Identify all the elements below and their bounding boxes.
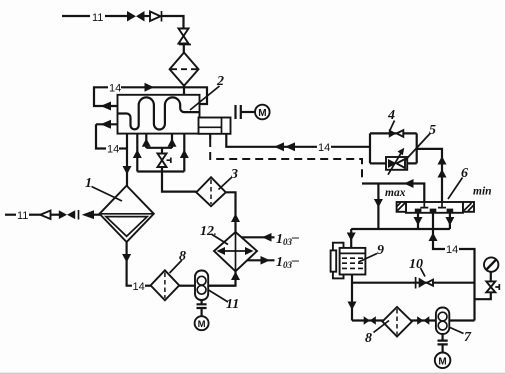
wire: valve to gauge: [490, 272, 492, 282]
svg-text:M: M: [198, 319, 206, 330]
wire: manifold vertical a: [136, 134, 138, 172]
wire: max pilot line: [362, 184, 424, 203]
filter F3 (diamond): [196, 177, 226, 206]
svg-text:max: max: [385, 187, 406, 199]
pump P7 (capsule): [436, 308, 449, 335]
svg-text:3: 3: [230, 167, 238, 182]
wire: port verticals with arrows down: [418, 213, 450, 229]
double arrow inside HX12: [221, 250, 250, 252]
motor M2 (pump 11 drive): [195, 316, 209, 330]
flow arrow up (middle port): [429, 233, 438, 242]
compressor unit U2 body: [118, 95, 200, 134]
wire: loop bottom to regulator 5: [370, 162, 386, 164]
wire: 14 line continues to loop: [331, 133, 370, 163]
drain valve (vertical bowtie under manifold): [161, 148, 163, 154]
double flow arrows up (to valve 6): [438, 156, 447, 165]
filter F8b (diamond): [382, 307, 412, 337]
wire: [94, 214, 100, 216]
leader line for label 7: [450, 328, 464, 334]
coil element inside unit 2: [118, 97, 200, 129]
flow arrow right (coolant out): [261, 256, 271, 265]
tank T9 outer shell: [333, 243, 344, 279]
wire: middle port down to 14: [433, 213, 445, 249]
wire: collector to tank 9: [350, 229, 352, 248]
flow arrow down (below filter 1): [122, 254, 131, 263]
wire: manifold vertical c: [171, 134, 173, 148]
wire: filter 8 to pump 11: [179, 285, 195, 287]
filter F8a (diamond): [151, 270, 180, 300]
svg-text:min: min: [473, 186, 492, 198]
tank T9 body: [340, 248, 366, 275]
flow arrow right (on 14 top line): [145, 83, 155, 92]
leader line for label 3: [219, 178, 232, 190]
flow arrow up (manifold c): [168, 138, 177, 147]
wire: coolant inlet line (upper right of HX12): [242, 236, 275, 238]
coupling under pump 7: [438, 334, 448, 352]
heat exchanger HX12 (diamond): [214, 232, 257, 271]
wire: HX12 bottom to pump line: [208, 271, 236, 285]
leader line for label 4: [390, 121, 395, 131]
wire: 14 stub to main down line: [119, 147, 127, 149]
adjustment arrow through R5: [388, 152, 402, 175]
wire: filter to unit 2 top: [183, 86, 185, 95]
wire: collector line: [351, 228, 450, 230]
flow arrow left (max line): [404, 179, 414, 188]
svg-text:5: 5: [429, 123, 436, 138]
svg-text:2: 2: [216, 74, 224, 89]
leader line for label 12: [212, 235, 228, 245]
wire: main line unit2 to filter 1: [126, 134, 128, 186]
svg-text:11: 11: [17, 210, 28, 222]
wire: intake line 11 left: [5, 214, 16, 216]
wire: outer manifold header: [137, 170, 184, 172]
flow arrow up (into filter 3 line): [231, 214, 240, 223]
pressure gauge G1: [484, 257, 498, 271]
svg-text:11: 11: [226, 297, 239, 312]
flow arrow left (lower port): [101, 120, 112, 129]
leader line for label 6: [448, 178, 463, 200]
wire: pump 11 outlet right: [208, 285, 235, 287]
wire: 14 line to the right with arrow into unit 2 step: [121, 87, 207, 104]
check valve (top line, triangle with seat bar): [150, 12, 161, 22]
svg-text:14: 14: [446, 244, 458, 256]
seat bar: [78, 210, 80, 220]
wire: line to check valve: [29, 214, 41, 216]
wire: gauge branch: [475, 292, 491, 299]
svg-text:14: 14: [318, 142, 330, 154]
dashed control line down and right: [210, 139, 362, 181]
wire: drain valve down and right to filter 3: [162, 167, 197, 192]
wire: top line turns down at right: [161, 16, 184, 29]
wire: manifold vertical d: [183, 134, 185, 172]
flow arrow down (to filter 1): [123, 166, 132, 175]
hatched end left: [397, 202, 406, 212]
wire: 14 to right edge line: [459, 249, 475, 321]
wire: 14 recirculation top line with corner bracket: [94, 87, 118, 106]
T ports on top of B6: [420, 202, 446, 208]
flow arrow up (into HX12): [231, 272, 240, 281]
flow arrow down (into tank): [347, 233, 356, 242]
wire: shaft line to motor: [241, 111, 255, 113]
wire: pressure line from cylinder to right: [226, 134, 317, 147]
svg-text:14: 14: [107, 144, 119, 156]
leader line for label 9: [359, 254, 378, 263]
motor M3 (pump 7 drive): [435, 353, 451, 369]
bottom port squares of B6: [415, 209, 422, 213]
flow arrow down: [374, 199, 383, 208]
wire: stem into filter: [183, 45, 185, 54]
svg-text:14: 14: [133, 281, 145, 293]
wire: bottom return line: [352, 319, 436, 321]
flow arrow left (upper port of unit 2): [101, 102, 112, 111]
svg-text:8: 8: [365, 331, 372, 346]
double flow arrows left (pressure line): [274, 142, 284, 151]
leader line for label 5: [405, 133, 431, 161]
coupling under pump 11: [197, 300, 207, 316]
shut-off valve (bottom right bowtie): [417, 316, 423, 325]
tick bar under valve: [179, 44, 191, 46]
check valve (left line, outline triangle): [40, 211, 50, 220]
svg-text:1: 1: [85, 176, 92, 191]
flow arrow down (below tank): [348, 302, 357, 311]
pressure switch block B6: [406, 202, 463, 213]
leader line for label 2: [190, 86, 220, 110]
svg-text:9: 9: [377, 243, 384, 258]
moisture trap triangle inside F1: [106, 217, 147, 237]
leader line for label 1: [92, 187, 123, 202]
wire: filter 3 right to heat exchanger 12: [226, 192, 236, 232]
wire: branch to valve 6 with double arrows: [417, 149, 442, 202]
wire: supply line 11 top-left segment: [62, 15, 90, 17]
wire: left bracket down to 14 label: [96, 124, 106, 148]
flow arrow up (manifold b): [142, 138, 151, 147]
wire: control line stub from cylinder (dashed start): [209, 134, 211, 139]
wire: manifold vertical b: [145, 134, 147, 148]
wire: inner manifold header: [146, 147, 172, 149]
shut-off valve (top line, bowtie): [127, 11, 136, 22]
motor M1 (drive of unit 2): [255, 105, 270, 120]
filter/separator (diamond above unit 2): [170, 53, 199, 86]
tank T9 side plate: [331, 250, 337, 271]
wire: lower-left port arrow of unit 2: [96, 123, 118, 125]
shut-off valve (bottom left bowtie): [364, 316, 370, 325]
wire: [51, 214, 60, 216]
cylinder block under unit 2 right: [199, 118, 231, 134]
wire: 14 to filter 8 left: [145, 285, 151, 287]
check valve V10: [415, 277, 417, 289]
wire: branch down from max line: [377, 184, 379, 230]
flow arrow up (manifold d): [180, 150, 189, 159]
filter F1 (main diamond): [100, 186, 154, 242]
check valve (filled, into filter 1): [82, 210, 94, 219]
hatched end right: [463, 202, 474, 212]
leader line for label 11: [209, 290, 229, 302]
wire: line 11 continues to valve: [105, 15, 128, 17]
leader line for label 8a: [170, 260, 183, 273]
wire: bypass line with check valve 10: [352, 282, 475, 284]
pressure regulator R5 (box): [386, 157, 407, 170]
svg-text:M: M: [258, 108, 266, 119]
leader line for label 8b: [374, 321, 390, 333]
wire: tank down to bottom loop: [351, 275, 353, 321]
wire: loop top with check valve 4: [370, 132, 417, 134]
wire: filter 1 down to 14 corner: [127, 242, 132, 286]
wire: coolant outlet line (lower right of HX12): [247, 259, 275, 261]
svg-text:11: 11: [92, 12, 103, 24]
leader line for label 10: [421, 268, 426, 277]
gauge shut-off valve (vertical bowtie): [486, 281, 495, 287]
wire: loop right side: [407, 133, 417, 163]
svg-text:M: M: [438, 357, 446, 368]
wire: between valves: [144, 15, 150, 17]
flow arrow left (coolant in): [262, 233, 272, 242]
shaft coupling bars: [236, 105, 241, 119]
wire: pump 7 to right line: [449, 319, 474, 321]
valve (vertical, above filter): [179, 29, 189, 37]
flow arrow up (manifold a): [133, 150, 142, 159]
check valve V4 (filled + seat): [389, 129, 397, 138]
shut-off valve (left line bowtie): [59, 210, 67, 219]
svg-text:14: 14: [109, 83, 121, 95]
pump P11 (capsule): [195, 271, 208, 301]
svg-text:7: 7: [464, 330, 472, 345]
